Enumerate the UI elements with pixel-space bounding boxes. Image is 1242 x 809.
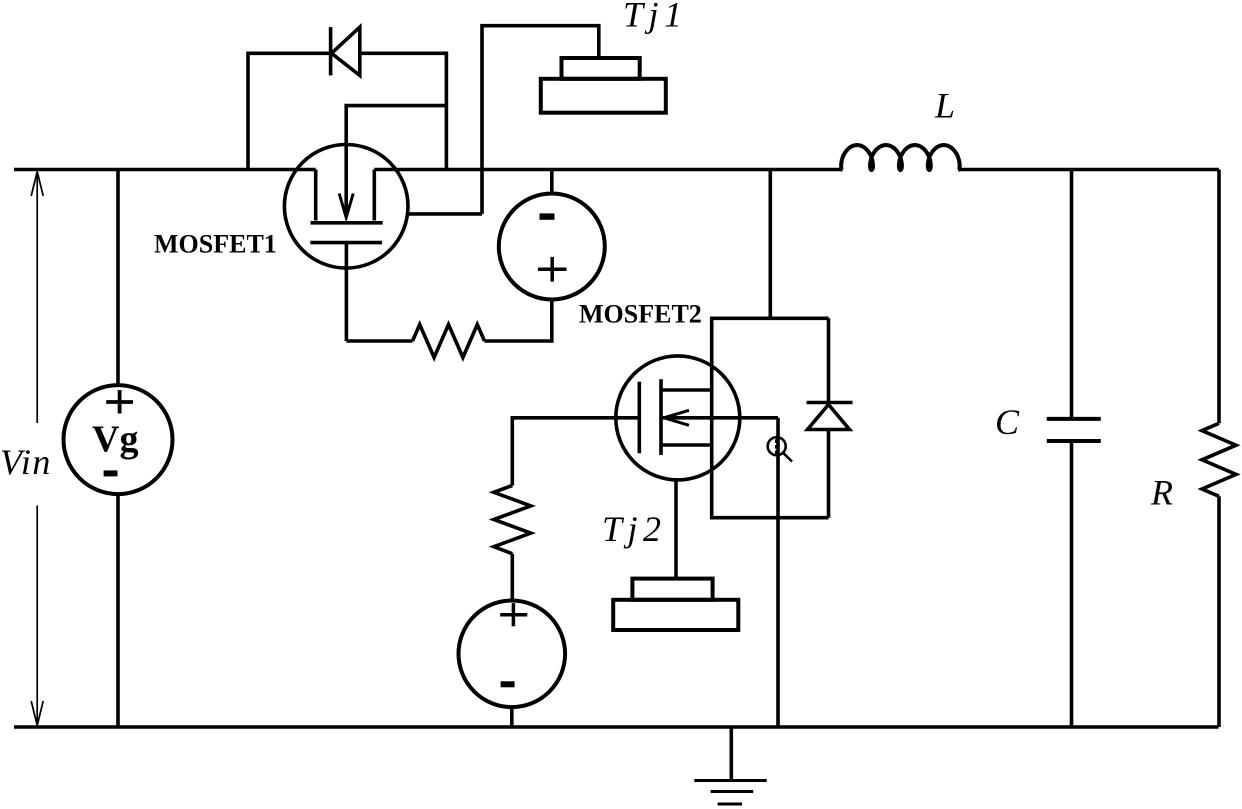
wire Vg bottom lead bbox=[116, 494, 120, 727]
wire MOSFET2 thermal lead bbox=[674, 480, 678, 579]
svg-text:Vg: Vg bbox=[92, 419, 138, 461]
resistor R (load, vertical) bbox=[1202, 423, 1236, 496]
svg-text:L: L bbox=[934, 86, 955, 126]
inductor L bbox=[841, 145, 960, 170]
V1 plus sign bbox=[538, 257, 567, 282]
capacitor C bottom plate bbox=[1047, 439, 1101, 443]
resistor R1 (gate resistor, horizontal) bbox=[413, 325, 485, 358]
wire bulk node down to bottom rail bbox=[776, 418, 780, 727]
svg-text:MOSFET2: MOSFET2 bbox=[579, 299, 702, 328]
svg-text:R: R bbox=[1150, 472, 1173, 512]
svg-text:C: C bbox=[995, 402, 1020, 442]
wire R to bottom rail bbox=[1217, 496, 1221, 727]
Vin dimension arrow bbox=[31, 172, 43, 726]
wire capacitor to bottom rail bbox=[1070, 441, 1074, 727]
wire snubber loop left bbox=[248, 53, 331, 169]
wire D1 anode to node bbox=[360, 53, 447, 169]
diode D1 cathode bar bbox=[329, 27, 333, 75]
wire MOSFET1 gate lead bbox=[345, 243, 349, 341]
wire MOSFET1 bulk lead bbox=[346, 106, 446, 215]
Vg plus sign bbox=[106, 390, 133, 414]
Tj2 heatsink base block bbox=[613, 600, 738, 630]
capacitor C top plate bbox=[1047, 417, 1101, 421]
wire R1 to MOSFET1 gate bbox=[346, 339, 412, 343]
MOSFET2 package box bbox=[712, 318, 829, 517]
MOSFET2 gate bar bbox=[637, 382, 641, 454]
MOSFET1 source lead bbox=[372, 170, 376, 221]
MOSFET2 channel bar bbox=[659, 379, 663, 455]
MOSFET1 bulk arrow head bbox=[339, 194, 353, 218]
wire MOSFET1 thermal lead bbox=[408, 212, 482, 216]
wire top rail left segment bbox=[14, 168, 316, 172]
MOSFET2 source lead bbox=[661, 443, 712, 447]
wire bottom rail (ground net) bbox=[14, 725, 1219, 729]
wire output node to capacitor bbox=[1070, 170, 1074, 419]
svg-text:Vin: Vin bbox=[0, 442, 52, 482]
V2 plus sign bbox=[500, 603, 527, 626]
voltage source V1 (MOSFET1 gate drive) bbox=[499, 194, 605, 300]
MOSFET1 channel bar bbox=[311, 221, 383, 225]
diode D1 triangle bbox=[332, 27, 360, 75]
diode D2 cathode bar bbox=[807, 401, 853, 405]
current probe marker bbox=[768, 437, 792, 461]
wire Tj1 node bbox=[482, 26, 599, 214]
Vg minus sign bbox=[104, 470, 118, 476]
MOSFET2 bulk lead with arrow bbox=[663, 416, 778, 420]
wire MOSFET2 gate lead bbox=[512, 418, 639, 486]
svg-text:Tj1: Tj1 bbox=[623, 0, 688, 34]
V2 minus sign bbox=[501, 681, 515, 687]
wire top rail to resistor R bbox=[1217, 170, 1221, 424]
Tj2 heatsink top block bbox=[632, 579, 712, 600]
wire Vg top lead bbox=[116, 170, 120, 386]
wire top rail right segment bbox=[958, 168, 1219, 172]
ground symbol bbox=[694, 727, 766, 804]
MOSFET1 drain lead bbox=[314, 170, 318, 221]
MOSFET2 body circle bbox=[616, 356, 740, 480]
MOSFET2 drain lead bbox=[661, 388, 712, 392]
voltage source V2 (MOSFET2 gate drive) bbox=[459, 601, 566, 708]
svg-text:Tj2: Tj2 bbox=[602, 509, 667, 549]
MOSFET2 bulk arrow head bbox=[664, 410, 689, 425]
Tj1 heatsink base block bbox=[541, 79, 666, 113]
voltage source Vg bbox=[64, 385, 173, 494]
diode D2 triangle bbox=[808, 405, 850, 430]
wire V2 bottom lead bbox=[510, 707, 514, 727]
MOSFET1 gate bar bbox=[310, 241, 382, 245]
wire V1 bottom lead bbox=[485, 300, 552, 342]
resistor R2 (gate resistor, vertical) bbox=[494, 486, 531, 554]
svg-text:MOSFET1: MOSFET1 bbox=[154, 229, 277, 258]
wire R2 to V2 bbox=[510, 554, 514, 601]
MOSFET1 body circle bbox=[284, 145, 408, 269]
wire top rail middle segment bbox=[374, 168, 842, 172]
V1 minus sign bbox=[540, 213, 555, 219]
wire gate source V1 top lead bbox=[550, 170, 554, 194]
Tj1 heatsink top block bbox=[562, 58, 640, 79]
wire drain node from top rail bbox=[768, 170, 772, 319]
